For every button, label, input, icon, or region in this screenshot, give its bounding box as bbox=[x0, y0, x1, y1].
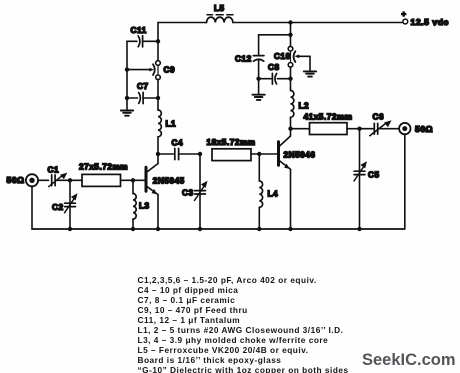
node rail L3 bbox=[131, 227, 135, 231]
svg-text:L4: L4 bbox=[268, 190, 279, 199]
wire junction to Q2 base bbox=[259, 153, 277, 155]
svg-text:50Ω: 50Ω bbox=[7, 175, 25, 185]
wire junction to R1 bbox=[70, 179, 82, 181]
resistor R3 stripline 41x5.72mm bbox=[291, 113, 360, 135]
node C7 left junction bbox=[125, 96, 129, 100]
svg-text:C1: C1 bbox=[48, 166, 60, 175]
svg-text:C10: C10 bbox=[274, 52, 291, 61]
capacitor C4 bbox=[158, 139, 200, 160]
inductor L4 bbox=[259, 154, 278, 229]
node rail Q1 emitter bbox=[156, 227, 160, 231]
node rail C2 bbox=[68, 227, 72, 231]
node rail C5 bbox=[357, 227, 361, 231]
svg-text:2N5945: 2N5945 bbox=[153, 177, 185, 186]
node C9 tap junction bbox=[125, 67, 129, 71]
wire input vertical bbox=[31, 186, 33, 229]
wire top rail left segment bbox=[158, 22, 207, 24]
wire between C9 and C7 junction bbox=[157, 80, 159, 98]
node C2 junction bbox=[68, 178, 72, 182]
capacitor C9 feed-thru bbox=[127, 61, 175, 80]
svg-text:50Ω: 50Ω bbox=[415, 124, 433, 134]
wire C10 to C8 junction bbox=[290, 67, 292, 90]
input terminal 50 ohm bbox=[7, 174, 49, 186]
capacitor C10 feed-thru bbox=[274, 46, 310, 67]
capacitor C1 (variable) bbox=[48, 166, 71, 187]
resistor R1 stripline 27x5.72mm bbox=[79, 163, 133, 187]
capacitor C6 (variable) bbox=[360, 112, 400, 135]
capacitor C5 (variable) bbox=[354, 129, 380, 229]
node L2 / collector / R3 junction bbox=[288, 127, 292, 131]
svg-text:12.5 vdc: 12.5 vdc bbox=[411, 17, 449, 27]
inductor L2 bbox=[291, 91, 310, 129]
svg-text:C12: C12 bbox=[235, 55, 252, 64]
svg-text:C2: C2 bbox=[52, 203, 64, 212]
ground for C10 bbox=[304, 56, 316, 76]
ground under C7 branch bbox=[121, 111, 133, 116]
svg-text:27x5.72mm: 27x5.72mm bbox=[79, 163, 128, 172]
svg-text:+: + bbox=[402, 10, 407, 19]
ground under C12 branch bbox=[252, 79, 264, 100]
wire supply vertical upper bbox=[290, 23, 292, 47]
svg-text:L2: L2 bbox=[299, 102, 310, 111]
parts list notes bbox=[138, 276, 458, 373]
node rail C3 bbox=[198, 227, 202, 231]
svg-text:C4: C4 bbox=[172, 139, 184, 148]
capacitor C3 (variable) bbox=[182, 154, 208, 229]
inductor L1 bbox=[158, 98, 176, 154]
node rail Q2 emitter bbox=[288, 227, 292, 231]
svg-text:2N5946: 2N5946 bbox=[284, 151, 316, 160]
node C3 junction bbox=[198, 152, 202, 156]
node C8 right junction bbox=[288, 77, 292, 81]
node top rail / supply branch junction bbox=[288, 20, 292, 24]
svg-text:C9: C9 bbox=[164, 66, 176, 75]
wire left branch vertical top bbox=[157, 23, 159, 61]
wire left sub-branch vertical bbox=[126, 41, 128, 110]
svg-text:41x5.72mm: 41x5.72mm bbox=[304, 113, 353, 122]
svg-text:C11: C11 bbox=[131, 26, 147, 35]
wire output vertical bbox=[404, 134, 406, 229]
node Q1 collector junction bbox=[156, 152, 160, 156]
transistor Q2 2N5946 bbox=[279, 129, 316, 229]
svg-text:C7: C7 bbox=[137, 82, 149, 91]
node C8 left junction bbox=[256, 77, 260, 81]
svg-text:C8: C8 bbox=[268, 63, 280, 72]
capacitor C7 bbox=[127, 82, 158, 103]
wire C12 branch horizontal bbox=[259, 34, 291, 36]
capacitor C8 bbox=[259, 63, 291, 84]
capacitor C11 bbox=[127, 26, 158, 47]
wire junction to Q1 base bbox=[133, 179, 145, 181]
node C7 right junction bbox=[156, 96, 160, 100]
node rail L4 bbox=[257, 227, 261, 231]
resistor R2 stripline 18x5.72mm bbox=[207, 138, 260, 161]
wire bottom rail bbox=[32, 228, 405, 230]
svg-text:C3: C3 bbox=[182, 189, 194, 198]
node L3 junction bbox=[131, 178, 135, 182]
svg-text:L1: L1 bbox=[166, 120, 177, 129]
capacitor C2 (variable) bbox=[52, 180, 78, 229]
node C12 branch junction bbox=[288, 33, 292, 37]
svg-text:18x5.72mm: 18x5.72mm bbox=[207, 138, 256, 147]
node C5 junction bbox=[357, 127, 361, 131]
output terminal 50 ohm bbox=[399, 123, 433, 134]
transistor Q1 2N5945 bbox=[146, 154, 185, 229]
svg-text:C6: C6 bbox=[373, 112, 385, 121]
supply terminal 12.5 vdc bbox=[402, 10, 449, 28]
capacitor C12 bbox=[235, 35, 264, 79]
node L4 junction bbox=[257, 152, 261, 156]
svg-text:C5: C5 bbox=[368, 171, 380, 180]
svg-text:L5: L5 bbox=[214, 4, 225, 13]
inductor L3 bbox=[133, 180, 150, 229]
node C11 right junction bbox=[156, 39, 160, 43]
wire top rail right segment bbox=[233, 22, 403, 24]
watermark SeekIC.com bbox=[362, 351, 456, 370]
svg-text:L3: L3 bbox=[139, 202, 150, 211]
inductor L5 bbox=[207, 4, 234, 23]
